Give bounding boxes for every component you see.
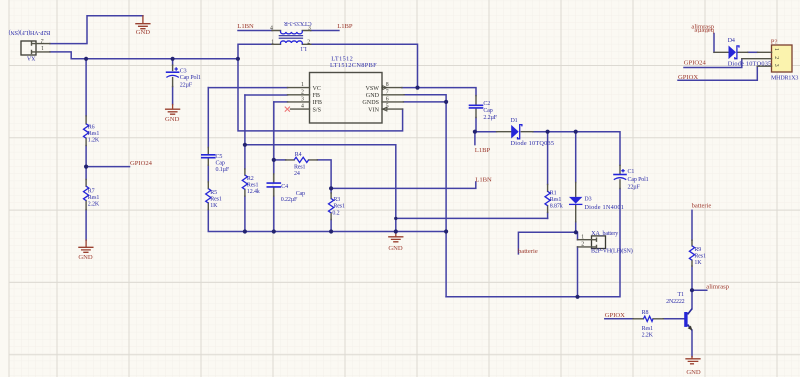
transformer L1 CTX33-3-R: [270, 20, 312, 51]
svg-text:Cap: Cap: [216, 161, 225, 167]
svg-text:0.22µF: 0.22µF: [281, 197, 298, 203]
connector XA (B2P-VH, rotated 180): [9, 29, 51, 61]
svg-text:IFB: IFB: [313, 100, 322, 106]
junction at VSW node: [415, 86, 419, 90]
svg-text:R8: R8: [642, 310, 649, 316]
svg-text:22µF: 22µF: [180, 82, 193, 88]
svg-text:GND: GND: [165, 116, 180, 123]
junction at GND/GNDS pins: [444, 100, 448, 104]
capacitor C3 Cap Pol1: [166, 65, 201, 88]
ground symbol (top, XA pin2): [136, 16, 151, 36]
svg-text:R4: R4: [295, 152, 302, 158]
junction at R1 tap on D1 output: [546, 130, 550, 134]
svg-text:Diode 10TQ035: Diode 10TQ035: [511, 140, 555, 147]
svg-text:T1: T1: [678, 292, 685, 298]
svg-text:R3: R3: [333, 197, 340, 203]
wire batterie stub to R9: [691, 210, 693, 240]
svg-text:GND: GND: [78, 254, 93, 261]
junction at C2/D1 anode node: [473, 130, 477, 134]
wire XA pin2 to GND: [50, 16, 143, 44]
svg-text:GPIO24: GPIO24: [130, 160, 153, 167]
svg-text:R7: R7: [88, 188, 95, 194]
wire C4 bottom to bus: [273, 196, 275, 232]
wire GPIO24 to P1 pin2: [684, 59, 742, 68]
junction at FB divider tap: [243, 143, 247, 147]
svg-text:R2: R2: [247, 176, 254, 182]
svg-text:GPIO24: GPIO24: [684, 59, 707, 66]
wire FB row: [245, 94, 288, 96]
svg-text:GND: GND: [686, 369, 701, 376]
svg-text:D3: D3: [584, 197, 591, 203]
svg-text:2.2K: 2.2K: [88, 202, 100, 208]
capacitor C2: [470, 96, 498, 121]
svg-text:L1: L1: [300, 45, 307, 51]
svg-text:VSW: VSW: [365, 86, 379, 92]
junction at VIN riser / input bus: [236, 57, 240, 61]
svg-text:C4: C4: [281, 184, 288, 190]
svg-text:Res1: Res1: [550, 197, 562, 203]
svg-text:R1: R1: [550, 191, 557, 197]
wire L1 pin2 to VSW node: [311, 44, 418, 87]
svg-text:3: 3: [773, 64, 779, 67]
svg-text:XA: XA: [26, 54, 35, 60]
svg-text:6: 6: [386, 97, 389, 103]
svg-text:1K: 1K: [694, 260, 702, 266]
junction at GPIO24 tap: [84, 165, 88, 169]
capacitor C1 Cap Pol1: [614, 165, 649, 190]
svg-text:R9: R9: [694, 247, 701, 253]
wire C3 top: [172, 59, 174, 65]
junction at ground bus end: [444, 229, 448, 233]
wire GPIO24 branch: [86, 166, 129, 168]
resistor R3: [329, 193, 345, 220]
wire C5 to R5: [207, 165, 209, 182]
svg-text:Res1: Res1: [294, 165, 306, 171]
wire R7 to GND: [85, 210, 87, 240]
junction at C4 / ground bus: [272, 229, 276, 233]
wire R8 to T1 base: [663, 318, 684, 320]
svg-text:S/S: S/S: [313, 107, 322, 113]
svg-text:P?: P?: [771, 39, 778, 46]
svg-text:Res1: Res1: [642, 326, 654, 332]
svg-text:4: 4: [301, 104, 304, 110]
junction at R4/C4 node: [272, 158, 276, 162]
wire IFB node down to C4: [273, 102, 275, 174]
svg-text:Res1: Res1: [88, 195, 100, 201]
junction at alimrasp tap: [690, 288, 694, 292]
diode D3 1N4001: [569, 183, 624, 222]
svg-text:Cap Pol1: Cap Pol1: [180, 75, 201, 81]
svg-text:L1BN: L1BN: [475, 176, 492, 183]
junction at R6 chain / input bus: [84, 57, 88, 61]
svg-text:0.2: 0.2: [332, 210, 339, 216]
svg-text:2.2K: 2.2K: [642, 333, 654, 339]
svg-text:1: 1: [581, 234, 584, 240]
capacitor C5: [202, 148, 230, 174]
svg-text:2: 2: [301, 89, 304, 95]
svg-text:Res1: Res1: [88, 131, 100, 137]
svg-text:4: 4: [270, 25, 273, 31]
wire R1 bottom: [547, 212, 549, 218]
wire GPIOX to R8: [605, 318, 633, 320]
svg-text:GND: GND: [366, 93, 380, 99]
svg-text:Cap Pol1: Cap Pol1: [628, 177, 649, 183]
wire L1BP stub: [474, 132, 476, 145]
svg-text:GNDS: GNDS: [362, 100, 379, 106]
wire XA pin2 down to bottom rail: [577, 247, 579, 297]
svg-text:D4: D4: [728, 38, 735, 44]
capacitor C4: [267, 174, 305, 203]
wire ground vertical GND/GNDS: [404, 95, 446, 297]
wire C2 bottom to D1 row: [476, 118, 497, 132]
svg-text:B2P-VH(LF)(SN): B2P-VH(LF)(SN): [9, 29, 51, 36]
resistor R9: [689, 240, 706, 266]
svg-text:FB: FB: [313, 93, 320, 99]
junction at D3 tap on D1 output: [574, 130, 578, 134]
op-amp/regulator U1 LT1512: [288, 56, 405, 124]
junction at R3 / ground bus: [329, 229, 333, 233]
svg-text:3: 3: [301, 97, 304, 103]
no-connect X on pin 4: [285, 107, 290, 112]
svg-text:1K: 1K: [210, 203, 218, 209]
wire D3 bottom to batterie node: [575, 222, 577, 233]
svg-text:L1BP: L1BP: [475, 147, 491, 154]
svg-text:XA_battery: XA_battery: [591, 231, 618, 237]
svg-text:8: 8: [386, 82, 389, 88]
wire R6 chain top: [85, 59, 87, 116]
wire R4 out to L1BN row: [317, 160, 331, 189]
resistor R8: [633, 310, 663, 338]
svg-text:2: 2: [307, 39, 310, 45]
svg-text:2: 2: [41, 37, 44, 43]
wire FB node down to R2: [244, 95, 246, 169]
svg-text:1: 1: [301, 82, 304, 88]
wire VC node down to C5: [207, 88, 209, 148]
svg-text:GPIOX: GPIOX: [605, 312, 625, 319]
ground symbol (main bus): [388, 232, 403, 252]
junction at C3 / input bus: [171, 57, 175, 61]
svg-text:batterie: batterie: [694, 27, 714, 34]
svg-text:1.2K: 1.2K: [88, 138, 100, 144]
wire D4 cathode to P1 pin1: [748, 51, 758, 53]
wire R4 row left: [274, 159, 286, 161]
svg-text:Res1: Res1: [247, 182, 259, 188]
junction at XA pin2 / bottom rail: [575, 295, 579, 299]
wire XA pin1 to input bus: [50, 52, 238, 59]
svg-text:Diode 1N4001: Diode 1N4001: [584, 204, 624, 211]
wire batterie label stub and XA pin1 jog: [518, 232, 577, 254]
wire D1 output row to C1 top: [533, 132, 620, 166]
svg-text:Cap: Cap: [483, 108, 492, 114]
svg-text:C5: C5: [216, 154, 223, 160]
svg-text:CTX33-3-R: CTX33-3-R: [284, 20, 312, 26]
wire R6 to R7: [85, 146, 87, 180]
svg-text:B2P-VH(LF)(SN): B2P-VH(LF)(SN): [591, 248, 633, 255]
svg-text:7: 7: [386, 89, 389, 95]
svg-text:C1: C1: [628, 169, 635, 175]
svg-text:C2: C2: [483, 101, 490, 107]
svg-text:GND: GND: [388, 245, 403, 252]
junction at R2 / ground bus: [243, 229, 247, 233]
junction at GND symbol / ground bus: [394, 229, 398, 233]
svg-text:GND: GND: [136, 29, 151, 36]
svg-text:C3: C3: [180, 68, 187, 74]
svg-text:2: 2: [581, 242, 584, 248]
wire FB divider to ground column: [245, 145, 396, 232]
wire T1 emitter to GND: [691, 330, 693, 356]
ground symbol (C3): [165, 105, 180, 124]
connector XA_battery: [578, 231, 633, 254]
svg-text:0.1µF: 0.1µF: [216, 167, 230, 173]
resistor R6: [84, 116, 100, 146]
wire R3 bottom to bus: [330, 220, 332, 232]
svg-text:D1: D1: [511, 118, 518, 124]
diode D4 10TQ035: [714, 38, 771, 68]
svg-text:R5: R5: [210, 190, 217, 196]
svg-text:L1BP: L1BP: [337, 23, 353, 30]
resistor R2: [242, 169, 260, 196]
wire R9 to T1 collector: [691, 266, 693, 309]
wire alimrasp/batterie stub to D4: [713, 34, 715, 53]
wire D1 node down to D3: [575, 132, 577, 183]
svg-text:Res1: Res1: [210, 197, 222, 203]
wire GPIOX to P1 pin3: [678, 66, 757, 80]
wire R1 bottom branch: [396, 217, 548, 219]
diode D1 10TQ035: [497, 118, 555, 147]
wire VIN loop and L1 pin1 riser: [238, 44, 403, 131]
wire GNDS row: [403, 101, 446, 103]
resistor R4: [286, 152, 318, 177]
svg-text:alimrasp: alimrasp: [706, 284, 729, 291]
svg-text:2: 2: [773, 56, 779, 59]
svg-text:L1BN: L1BN: [237, 23, 254, 30]
resistor R5: [206, 182, 222, 210]
junction at batterie node: [574, 230, 578, 234]
junction at R1 bottom branch: [394, 217, 397, 220]
wire C1 bottom to bottom rail: [446, 189, 620, 297]
svg-text:Res1: Res1: [333, 204, 345, 210]
wire C3 bottom to GND: [172, 87, 174, 105]
svg-text:5: 5: [386, 104, 389, 110]
wire R2 bottom to bus: [244, 196, 246, 231]
ground symbol (T1 emitter): [686, 357, 701, 377]
wire D1 node down to R1: [547, 132, 549, 185]
svg-text:batterie: batterie: [518, 248, 538, 255]
svg-text:batterie: batterie: [692, 203, 712, 210]
svg-text:GPIOX: GPIOX: [678, 74, 698, 81]
svg-text:LT1512CN8PBF: LT1512CN8PBF: [330, 62, 377, 69]
svg-text:R6: R6: [88, 124, 95, 130]
svg-text:22µF: 22µF: [628, 184, 641, 190]
wire R5 to ground bus: [208, 210, 446, 232]
wire VSW row to C2: [402, 88, 476, 96]
wire junction to R3 top: [330, 188, 332, 193]
svg-text:2.2µF: 2.2µF: [483, 115, 497, 121]
resistor R1: [545, 184, 563, 212]
wire L1BN row with stub: [331, 182, 476, 188]
wire IFB row: [274, 101, 288, 103]
wire L1BN stub: [238, 30, 272, 32]
svg-text:VIN: VIN: [368, 107, 379, 113]
wire L1BP stub: [311, 30, 339, 32]
connector P? MHDR1X3: [742, 39, 799, 82]
transistor T1 2N2222: [666, 292, 692, 331]
svg-text:VC: VC: [313, 86, 321, 92]
svg-text:1: 1: [41, 44, 44, 50]
svg-text:Res1: Res1: [694, 253, 706, 259]
junction at R4/R3/L1BN node: [329, 186, 333, 190]
wire VC row: [208, 87, 287, 89]
svg-text:24: 24: [294, 171, 300, 177]
wire alimrasp stub: [692, 289, 707, 291]
ground symbol (R7): [78, 240, 93, 261]
svg-text:12.4k: 12.4k: [247, 189, 260, 195]
svg-text:1: 1: [773, 48, 779, 51]
svg-text:8.87k: 8.87k: [550, 204, 563, 210]
svg-text:2N2222: 2N2222: [666, 299, 685, 305]
svg-text:MHDR1X3: MHDR1X3: [771, 76, 798, 82]
svg-text:1: 1: [271, 39, 274, 45]
resistor R7: [84, 180, 100, 210]
